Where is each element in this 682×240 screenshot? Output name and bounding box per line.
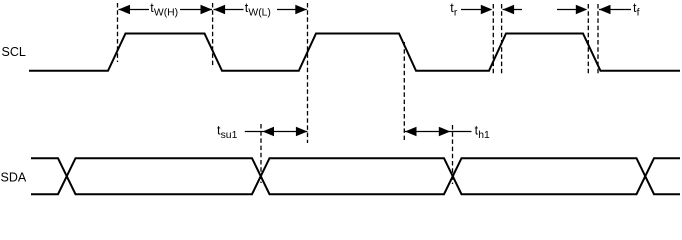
svg-text:SCL: SCL [2, 45, 26, 59]
dashed line at SDA transition 2 (tsu1 left) [260, 124, 262, 183]
svg-text:f: f [637, 8, 640, 19]
dimension tW(L) left arrow [214, 5, 244, 15]
dimension tf right arrow pointing left [599, 5, 631, 15]
dimension tsu1 double arrow [245, 127, 308, 137]
dashed line tf end [597, 4, 599, 75]
dimension tW(H) right arrow [180, 5, 212, 15]
dashed line at SCL fall 2 [403, 42, 405, 140]
dashed line at SDA transition 3 (th1 right) [452, 125, 454, 184]
SDA waveform upper-start trace [31, 158, 680, 194]
dashed line tr start [492, 4, 494, 76]
dashed line at SCL fall 1 midpoint [212, 3, 214, 66]
svg-text:su1: su1 [221, 130, 238, 141]
svg-text:W(H): W(H) [154, 8, 178, 19]
svg-text:r: r [454, 8, 458, 19]
svg-text:W(L): W(L) [248, 8, 271, 19]
dashed line tf start [587, 4, 589, 75]
dimension tr leader arrow pointing right [461, 5, 492, 15]
dashed line tr end [501, 4, 503, 76]
svg-text:SDA: SDA [1, 170, 27, 184]
dimension tW(L) right arrow [277, 5, 307, 15]
dashed line at SCL rise 1 midpoint [117, 3, 119, 62]
dimension tf left arrow pointing right [557, 5, 587, 15]
dimension tr right arrow pointing left [503, 5, 522, 15]
dimension th1 double arrow [405, 127, 472, 137]
svg-text:h1: h1 [478, 130, 490, 141]
dashed line at SCL rise 2 midpoint [307, 3, 309, 143]
SCL waveform [29, 34, 680, 71]
SDA waveform lower-start trace [31, 158, 680, 194]
dimension tW(H) left arrow [119, 5, 150, 15]
